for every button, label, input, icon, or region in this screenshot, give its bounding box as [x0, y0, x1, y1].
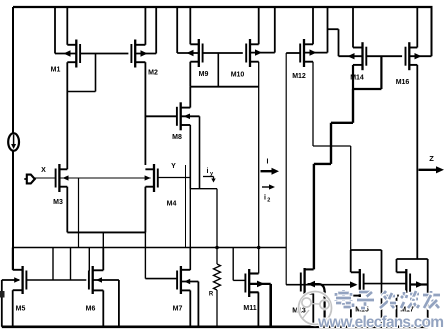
output arrow Z — [419, 166, 445, 173]
wire rail tap b — [70, 248, 72, 281]
svg-text:M2: M2 — [148, 70, 158, 77]
wire M9 source to VDD — [189, 7, 191, 44]
label M6 — [86, 306, 96, 313]
label M11 — [243, 305, 256, 312]
wire Y jog to R — [190, 188, 217, 190]
wire Y node column — [189, 178, 191, 270]
wire M5 drain lead — [12, 248, 14, 270]
svg-text:2: 2 — [267, 198, 270, 204]
transistor M15 — [351, 269, 364, 297]
wire M4 bulk arrow — [145, 175, 151, 180]
wire M17 source to ground — [396, 296, 398, 327]
wire M15 drain box — [351, 250, 382, 272]
svg-text:M1: M1 — [51, 67, 61, 74]
wire M13 source to ground — [312, 294, 314, 327]
junction dot — [257, 246, 261, 250]
transistor M5 — [13, 266, 27, 294]
wire gate line tap down — [217, 53, 219, 87]
wire M15 source to ground — [350, 296, 352, 327]
svg-text:Z: Z — [429, 154, 434, 163]
wire M3 bulk line to M4 — [59, 175, 150, 180]
wire M5-M6 gate line — [26, 279, 86, 281]
wire differential tail — [67, 231, 145, 233]
wire M4 source down to tail — [144, 187, 146, 233]
wire bias line right — [286, 284, 356, 286]
svg-text:i: i — [264, 195, 266, 202]
wire M1 bulk to VDD — [55, 7, 76, 57]
label M13 — [292, 308, 306, 315]
wire M1 drain down — [66, 62, 68, 169]
wire M14-M16 gate line — [366, 55, 402, 57]
label M12 — [292, 73, 306, 80]
svg-text:M3: M3 — [53, 199, 63, 206]
wire M14 drain cross path to M13 — [314, 89, 353, 269]
svg-text:M4: M4 — [167, 201, 177, 208]
output label Z — [429, 154, 434, 163]
transistor M16 — [406, 42, 418, 70]
svg-text:M5: M5 — [16, 306, 26, 313]
transistor M6 — [89, 266, 103, 294]
wire M2 source to VDD — [144, 7, 146, 45]
wire M12 gate line — [286, 52, 300, 54]
wire tail tap to rail — [102, 232, 104, 247]
svg-text:M12: M12 — [292, 73, 306, 80]
node X label — [41, 167, 46, 174]
transistor M9 — [190, 39, 202, 67]
resistor R — [214, 189, 221, 327]
transistor M2 — [131, 40, 145, 68]
wire X to M3 gate — [35, 177, 55, 179]
svg-text:i: i — [207, 168, 209, 175]
label M10 — [231, 72, 245, 79]
watermark logo circle — [299, 292, 332, 325]
wire M10 drain long line down to M11 — [258, 62, 260, 274]
wire M16 bulk to VDD — [409, 7, 431, 59]
svg-text:M10: M10 — [231, 72, 245, 79]
wire M15 right column to ground — [381, 284, 383, 327]
wire M13 bulk hook — [308, 281, 325, 327]
wire M9 drain down — [189, 62, 191, 87]
label M3 — [53, 199, 63, 206]
wire M14 drain diode link — [353, 56, 381, 89]
transistor M3 — [56, 164, 68, 192]
svg-text:I: I — [267, 159, 269, 166]
svg-text:www.elecfans.com: www.elecfans.com — [317, 314, 444, 331]
wire M5 bulk — [2, 277, 20, 327]
wire M6 bulk — [93, 277, 119, 327]
wire M15 gate diode — [363, 250, 381, 284]
transistor M7 — [177, 266, 190, 294]
input port X — [24, 175, 35, 184]
wire M10 bulk to VDD — [250, 7, 275, 56]
watermark blob — [0, 291, 5, 298]
svg-text:X: X — [41, 167, 46, 174]
current label i2 — [264, 195, 270, 204]
wire rail tap a — [52, 248, 54, 281]
wire M16 source to VDD — [416, 7, 418, 48]
label M4 — [167, 201, 177, 208]
svg-text:M8: M8 — [172, 134, 182, 141]
watermark text url — [317, 314, 444, 331]
label M9 — [199, 71, 209, 78]
wire M5 source to ground — [12, 290, 14, 327]
wire M13 gate bias line — [286, 284, 301, 286]
wire M17 bulk thick — [410, 281, 428, 288]
svg-text:R: R — [209, 292, 214, 298]
svg-text:M11: M11 — [243, 305, 256, 312]
wire left supply line — [12, 7, 14, 270]
svg-text:M16: M16 — [396, 79, 410, 86]
label M14 — [350, 75, 364, 82]
wire M7 gate line — [145, 278, 177, 280]
transistor M17 — [397, 269, 411, 297]
label M17 — [400, 307, 414, 314]
current source Iref — [8, 133, 19, 151]
svg-text:M9: M9 — [199, 71, 209, 78]
wire bottom ground rail — [2, 325, 428, 328]
wire M12 drain down (thin) — [312, 62, 314, 146]
wire M1 gate-drain jog — [67, 54, 95, 92]
wire M2 bulk to VDD — [135, 7, 156, 57]
wire M10 source to VDD — [258, 7, 260, 44]
transistor M8 — [177, 102, 190, 130]
wire M1-M2 gate line — [80, 53, 129, 55]
wire M8 bulk — [181, 114, 200, 189]
label M2 — [148, 70, 158, 77]
wire VDD top rail — [13, 6, 433, 8]
wire M7 drain up — [189, 248, 191, 270]
transistor M14 — [353, 42, 366, 70]
wire M2 drain down to M4 drain — [144, 62, 146, 165]
wire M16 drain down to M17 — [416, 65, 418, 259]
junction dot R top — [215, 246, 219, 250]
wire M12 source to VDD — [312, 7, 314, 44]
current arrow I — [261, 168, 280, 175]
current arrow i2 — [262, 184, 275, 189]
wire M14 bulk jog — [328, 29, 363, 59]
wire M6 source to ground — [102, 290, 104, 326]
svg-text:M6: M6 — [86, 306, 96, 313]
current label I — [267, 159, 269, 166]
label M16 — [396, 79, 410, 86]
wire M7 source to ground — [189, 290, 191, 326]
wire M8 gate from M2 drain — [145, 115, 177, 117]
watermark text dianzifashaoyou — [336, 290, 440, 308]
wire M11 gate from rail — [233, 248, 246, 281]
wire M11 source to ground — [257, 292, 259, 327]
wire M3 source down to tail — [66, 187, 68, 233]
wire M9 bulk to VDD — [177, 7, 199, 56]
wire bias mid rail — [13, 247, 286, 249]
transistor M11 — [245, 269, 258, 297]
label M1 — [51, 67, 61, 74]
transistor M4 — [145, 164, 157, 192]
node Y label — [171, 163, 176, 170]
wire thin Y drop — [185, 165, 187, 248]
label M8 — [172, 134, 182, 141]
wire M1 source to VDD — [66, 7, 68, 45]
wire M14 source to VDD — [352, 7, 354, 48]
transistor M1 — [67, 40, 80, 68]
transistor M12 — [300, 39, 313, 67]
wire bulk tap down — [78, 178, 80, 248]
wire M8-M10 drain bus — [190, 86, 258, 88]
wire M12 gate drop to bias — [285, 53, 287, 285]
svg-text:Y: Y — [171, 163, 176, 170]
label M5 — [16, 306, 26, 313]
label M15 — [355, 307, 369, 314]
wire M6 gate tap — [88, 248, 90, 272]
wire M4 gate to Y node — [157, 177, 190, 179]
wire M6 drain to rail — [102, 248, 104, 271]
transistor M10 — [246, 39, 259, 67]
current label iy — [203, 168, 216, 183]
wire M8 drain up — [189, 87, 191, 108]
wire M9-M10 gate line — [202, 52, 243, 54]
wire M15 bulk arrow thick — [350, 281, 358, 288]
wire M12 drain cross to M15 — [313, 146, 351, 250]
label R — [209, 292, 214, 298]
label M7 — [173, 306, 183, 313]
svg-text:M7: M7 — [173, 306, 183, 313]
wire M8 source down — [189, 125, 191, 189]
wire M17 right column to ground — [427, 259, 429, 327]
wire M12 bulk to VDD — [304, 7, 328, 56]
wire M15-M17 gate line — [382, 283, 408, 285]
wire M7 bulk — [181, 279, 199, 327]
wire M11 bulk thick — [249, 281, 271, 327]
wire M17 drain box — [397, 259, 428, 272]
wire tail column to M7 gate — [144, 232, 146, 278]
transistor M13 — [301, 268, 314, 296]
